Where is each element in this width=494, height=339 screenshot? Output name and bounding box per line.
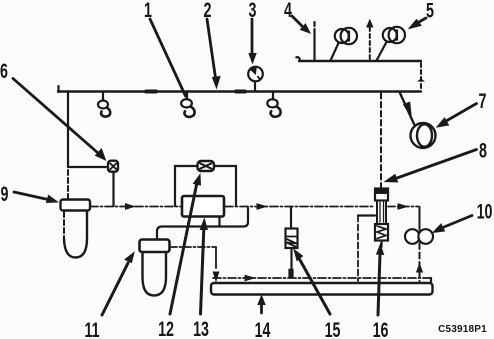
svg-text:1: 1	[144, 0, 152, 22]
leader 7 with arrowhead	[437, 104, 477, 128]
svg-text:4: 4	[284, 0, 292, 22]
wire dashed vent line above tank	[369, 27, 371, 60]
wire branch to valve 6	[68, 166, 107, 168]
wire dashed supply drop to valve 16	[380, 93, 382, 188]
wire lower loop to filter 11	[157, 208, 248, 239]
leader 9 with arrowhead	[14, 192, 58, 203]
horn 7 (large)	[400, 93, 436, 148]
leader 13 with arrowhead	[200, 219, 207, 314]
horn symbol 5	[383, 27, 405, 43]
svg-text:5: 5	[426, 0, 434, 22]
leader 1	[150, 19, 186, 96]
valve 6 (check valve box)	[108, 161, 118, 172]
svg-text:3: 3	[249, 0, 257, 22]
wire flow arrow near gauge junction	[236, 90, 245, 94]
horn symbol (left of 5)	[335, 28, 357, 44]
compressor 10 (twin circles)	[405, 229, 433, 244]
drain hook fitting (right)	[267, 92, 280, 117]
svg-text:6: 6	[0, 59, 8, 82]
svg-text:14: 14	[255, 318, 271, 339]
leader 4 with arrowhead	[292, 16, 310, 33]
wire tick into manifold right end	[430, 278, 432, 283]
wire inlet stem 4	[313, 29, 315, 61]
valve 15 (pressure protection valve)	[286, 207, 298, 278]
wire pilot flow arrow	[126, 204, 135, 209]
leader 5 with arrowhead	[409, 18, 426, 29]
wire valve 16 left port	[358, 214, 375, 216]
arrow up on vent line	[367, 20, 373, 27]
wire pilot flow arrow 3	[398, 204, 407, 209]
wire drain below valve 13	[218, 217, 220, 227]
wire dash-dot drop to filter 9	[67, 170, 69, 199]
wire left end cap tick	[57, 86, 59, 92]
drain hook fitting (left)	[98, 92, 110, 117]
wire bypass loop right	[214, 166, 236, 206]
filter 9	[61, 200, 91, 258]
leader 11 with arrowhead	[102, 253, 134, 316]
leader 16 with arrowhead	[377, 245, 384, 316]
wire horn connector	[331, 43, 339, 61]
valve 12 (bypass check valve)	[198, 161, 215, 171]
svg-text:9: 9	[1, 182, 9, 205]
svg-text:7: 7	[479, 89, 487, 112]
wire valve 6 to pilot line	[112, 173, 114, 207]
svg-text:15: 15	[325, 318, 341, 339]
tank right dashed edge	[420, 63, 422, 90]
arrow up on right drop	[417, 264, 423, 272]
leader 8 with arrowhead	[385, 150, 477, 183]
leader 12 with arrowhead	[170, 175, 201, 315]
gauge G (component 3)	[248, 67, 263, 91]
valve 16 / 8 (safety relief valve stack)	[375, 189, 388, 248]
wire drop to manifold with arrow	[215, 247, 217, 268]
svg-text:11: 11	[84, 318, 99, 339]
leader 10 with arrowhead	[433, 216, 472, 233]
svg-text:13: 13	[193, 317, 209, 339]
svg-text:C53918P1: C53918P1	[438, 324, 487, 335]
wire pilot line right	[388, 206, 419, 208]
tank top-left lip	[296, 57, 300, 61]
svg-text:2: 2	[204, 0, 212, 22]
wire dash line from filter 11	[170, 246, 216, 248]
wire pilot line (dash-dot, upper)	[90, 206, 181, 208]
manifold 14 (bottom air manifold)	[211, 283, 433, 295]
valve 13 (governor body)	[182, 196, 224, 217]
leader 2 with arrowhead	[207, 19, 220, 88]
svg-text:16: 16	[373, 318, 389, 339]
wire dashed drop to manifold	[357, 216, 359, 282]
wire right drop line through governor	[419, 207, 421, 230]
wire pilot line mid	[225, 206, 374, 208]
filter 11	[140, 240, 170, 296]
leader 15 with arrowhead	[294, 250, 330, 315]
wire bypass loop left	[175, 166, 197, 206]
svg-text:8: 8	[479, 139, 487, 162]
arrow up on tank right edge	[418, 79, 423, 81]
wire main supply line	[58, 90, 421, 92]
wire lower pilot line (dash-dot)	[213, 277, 431, 279]
wire flow arrow on main line	[146, 90, 156, 94]
wire left drop line	[67, 92, 69, 168]
wire horn 5 connector	[377, 42, 387, 61]
wire lower pilot flow arrow	[245, 275, 254, 280]
svg-text:10: 10	[477, 200, 493, 223]
leader 14 with arrowhead	[258, 296, 265, 314]
wire pilot flow arrow 2	[257, 204, 266, 209]
svg-text:12: 12	[158, 317, 174, 339]
tank top line (air tank 2)	[299, 60, 421, 62]
leader 6 with arrowhead	[13, 79, 106, 161]
leader 3 with arrowhead	[249, 19, 256, 63]
drain hook fitting 1	[181, 92, 195, 117]
